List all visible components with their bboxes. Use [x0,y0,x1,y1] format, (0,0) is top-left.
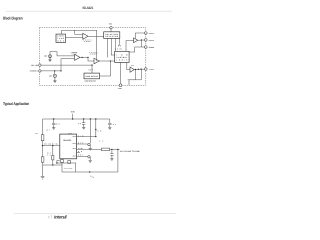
wire U4 output to pin 2 [138,39,145,41]
node divider tap right [52,145,53,146]
pin SEL18V left [39,64,41,66]
junction node EN wire [54,70,55,71]
wire U2 output [80,57,94,61]
node left pin [56,162,57,163]
pin GND bottom [119,84,122,87]
top rail wire [43,118,110,120]
comparator U5 [130,67,134,72]
current source I1 [49,55,52,58]
block diagram dashed border [39,28,145,86]
svg-text:VOUT: VOUT [73,136,77,138]
node bus2 tap [95,118,96,119]
wire branch to U1 top input [75,30,83,34]
wire U2 lower input [61,58,75,60]
wire to gnd pin [120,62,122,84]
wire left pin [57,161,60,164]
arrow between B and C [118,38,121,46]
junction node U3 out [110,60,111,61]
capacitor C4 right [108,119,111,127]
wire down right [140,69,142,80]
wire bottom row [57,163,76,172]
pin EN left [39,70,41,72]
node VIN input on rail [72,118,73,119]
resistor R3 vertical [52,146,54,165]
wire U5 output to pin [134,68,144,71]
component under IC 1 [61,160,64,163]
VIN input stub [72,114,74,119]
wire divider to IC left [43,145,60,147]
ground under VREF [53,77,56,82]
resistor R2 [41,157,44,162]
svg-text:VCC: VCC [68,133,72,135]
wire pin VIN right [77,136,96,138]
control logic box C [115,51,129,62]
svg-text:intersil: intersil [54,215,67,220]
node VIN pin wire [95,136,96,137]
wire VIN pin to box B [110,29,112,32]
wire pin VOUT [77,148,102,150]
node output corner [117,149,118,150]
svg-text:C12 100nF: C12 100nF [64,168,73,170]
wire SEL18V to tone detector [41,65,92,73]
junction node U2 out 2 [87,57,88,58]
pin EN stub [77,151,81,153]
svg-text:VIN: VIN [71,111,75,114]
wire box D output [100,61,111,76]
wire box B down 3 with arrow [115,38,117,51]
node ground rail [89,171,90,172]
svg-text:DET: DET [89,69,93,71]
wire box B down 2 [108,38,115,57]
wire osc out to comparator U1 [66,37,83,39]
pulse detector box B [104,32,120,39]
junction node U5 out 3 [140,68,141,69]
footer separator [50,215,52,219]
current source arrow [50,54,51,58]
wire box C top to U4 input [126,41,134,52]
wire I1 to U2 input [50,52,75,56]
node C1 tap [53,118,54,119]
wire bottom bus [128,79,142,81]
oscillator box 22kHz TONE OSC [56,34,66,42]
junction node U5 out 1 [135,69,136,70]
ground C5 [110,158,113,160]
junction node SEL wire [91,64,92,65]
capacitor C5 output [110,149,113,158]
wire node to pin3 row [140,40,142,47]
ground rail [62,171,118,173]
pin VOUT2 [145,39,148,42]
tone detector box D [84,73,100,79]
node C5 tap [111,149,112,150]
svg-text:SEL18V: SEL18V [31,64,39,67]
capacitor C2 [82,119,85,127]
ground left [41,176,45,179]
pin SENSE [145,46,148,49]
comparator U3 [94,58,99,64]
pin LOUT [145,68,148,71]
svg-text:TTL: TTL [131,65,135,67]
svg-text:ISL6421: ISL6421 [83,6,94,10]
svg-text:Typical Application: Typical Application [3,101,29,106]
resistor R1 [41,135,44,141]
wire U3 out to box C [99,60,114,62]
junction node cross link [60,70,61,71]
wire U4 top to pin 1 [135,33,144,38]
amplifier U2 [75,54,80,60]
ground C2 [82,127,85,129]
wire osc top to node [62,30,97,61]
ground under I1 [48,58,51,62]
svg-text:ISL6421: ISL6421 [63,139,72,142]
footer rule [14,212,176,214]
wire down from U5 net [135,70,137,80]
svg-text:VO 13V/18V TO LNB: VO 13V/18V TO LNB [120,150,140,153]
svg-text:VOUT: VOUT [73,155,77,157]
wire mid row [43,164,62,166]
capacitor C1 [52,119,55,128]
comparator U4 [134,38,138,43]
wire cross link [60,59,62,71]
node C2 tap [83,118,84,119]
svg-text:Block Diagram: Block Diagram [3,15,23,20]
svg-text:VOUT: VOUT [73,143,77,145]
wire U1 output to pulse detector [88,35,104,37]
header rule [6,10,172,12]
node divider bottom [52,164,53,165]
ground SEL cap [89,160,92,162]
node mid bus2 [95,129,96,130]
wire to vref [54,71,56,74]
wire box C to pin 3 [129,47,144,52]
ground C4 [108,127,111,129]
pin VIN top [110,27,112,29]
svg-text:7: 7 [48,215,50,219]
wire stub to border [128,80,130,86]
node divider tap left [42,145,43,146]
wire L1 to output [110,148,120,150]
junction node U5 out 2 [138,69,139,70]
junction node U2 out 1 [81,57,82,58]
wire step down [61,162,63,172]
svg-text:OSC: OSC [57,39,65,42]
ground BYP cap [89,148,92,150]
wire EN net [41,70,61,72]
pin VOUT1 [145,32,148,35]
wire pin SEL [77,156,91,160]
left vertical wire [42,119,44,176]
wire output return [117,149,119,172]
inductor L1 ferrite bead [101,148,109,151]
component under IC 2 [68,161,71,164]
svg-text:EN/SSEL: EN/SSEL [30,70,38,73]
IC U1 ISL6421 [60,134,77,159]
node bus1 tap [90,118,91,119]
comparator U1 [83,33,88,39]
reference source VREF [53,74,56,77]
wire pin BYP [77,144,91,148]
wire box C bottom to U5 [127,62,130,69]
junction node at U4 output [141,39,142,40]
wire box B down 1 [107,38,109,57]
svg-text:VOUT: VOUT [73,148,77,150]
ground C1 [52,128,55,130]
wire aux branch [89,119,91,143]
wire VIN branch [95,119,97,137]
